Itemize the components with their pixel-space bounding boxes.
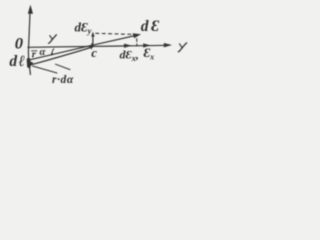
svg-text:dℓ: dℓ (9, 53, 26, 70)
overbar of r label (32, 50, 38, 52)
svg-text:c: c (91, 45, 97, 60)
vertical axis arrowhead (28, 5, 33, 14)
label x (axis) (178, 43, 186, 52)
svg-text:r·dα: r·dα (52, 74, 74, 86)
arrowhead E on axis (143, 43, 150, 47)
vertical axis (filament line) (28, 8, 30, 75)
dashed horizontal from dEy tip to dE tip (96, 33, 133, 34)
leader line 2 to r·da label (56, 64, 71, 69)
x axis arrowhead (164, 43, 172, 47)
dl junction ink wedge (29, 61, 34, 67)
angle alpha arc near c (52, 49, 54, 55)
label x (distance O-c) (49, 35, 57, 43)
dashed vertical from dE tip to axis (136, 39, 138, 46)
ray r from dl through c to dE tip (29, 35, 138, 60)
arrowhead dEx on axis (124, 44, 132, 48)
vector dEy line (92, 34, 94, 46)
dE arrowhead (133, 33, 141, 38)
dEy arrowhead (91, 32, 94, 37)
svg-text:α: α (40, 47, 46, 58)
svg-text:dƐ: dƐ (141, 18, 162, 35)
horizontal x axis (28, 45, 169, 47)
leader line 1 to r·da label (33, 66, 58, 73)
angle arc arrowhead (51, 53, 54, 56)
tick at point c (90, 44, 92, 49)
svg-text:0: 0 (15, 36, 24, 53)
ray 2 from dl bottom to c (30, 47, 93, 65)
element dl (thick segment) (27, 60, 31, 66)
svg-text:dƐx,: dƐx, (120, 48, 139, 64)
